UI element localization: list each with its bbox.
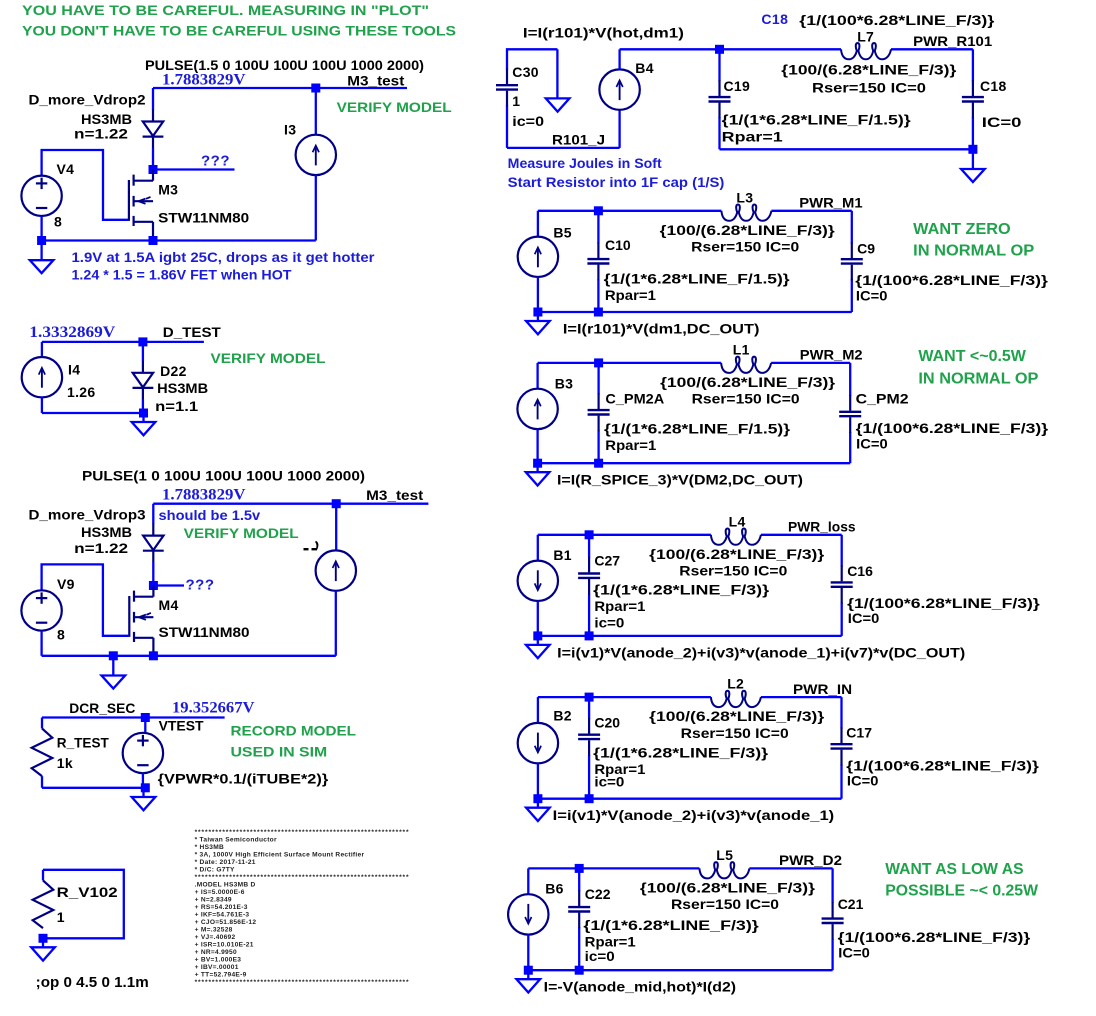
- junction M4 source: [149, 651, 158, 660]
- svg-text:* 3A, 1000V High Efficient Sur: * 3A, 1000V High Efficient Surface Mount…: [195, 852, 365, 859]
- svg-text:1.7883829V: 1.7883829V: [162, 486, 246, 503]
- svg-text:{1/(100*6.28*LINE_F/3)}: {1/(100*6.28*LINE_F/3)}: [846, 757, 1039, 773]
- ground D: [132, 788, 156, 810]
- svg-text:Rser=150 IC=0: Rser=150 IC=0: [692, 391, 800, 407]
- wire C21 branch lower: [831, 939, 833, 970]
- wire D22 anode: [142, 342, 144, 361]
- svg-text:{1/(1*6.28*LINE_F/1.5)}: {1/(1*6.28*LINE_F/1.5)}: [722, 112, 912, 128]
- wire C27 branch upper: [588, 535, 590, 558]
- svg-text:should be 1.5v: should be 1.5v: [159, 507, 261, 523]
- wire top rail J right: [761, 696, 842, 698]
- svg-text:IC=0: IC=0: [856, 435, 888, 451]
- svg-text:{100/(6.28*LINE_F/3)}: {100/(6.28*LINE_F/3)}: [649, 546, 825, 562]
- svg-text:{100/(6.28*LINE_F/3)}: {100/(6.28*LINE_F/3)}: [640, 879, 816, 895]
- svg-text:I=I(R_SPICE_3)*V(DM2,DC_OUT): I=I(R_SPICE_3)*V(DM2,DC_OUT): [557, 472, 803, 488]
- svg-text:n=1.22: n=1.22: [74, 125, 128, 141]
- wire V9 minus to rail: [40, 631, 42, 656]
- svg-text:{1/(100*6.28*LINE_F/3)}: {1/(100*6.28*LINE_F/3)}: [855, 272, 1048, 288]
- wire top rail G left: [538, 210, 722, 212]
- svg-text:V4: V4: [57, 161, 75, 177]
- svg-text:+ CJO=51.856E-12: + CJO=51.856E-12: [195, 919, 257, 926]
- svg-text:PWR_R101: PWR_R101: [913, 33, 992, 49]
- svg-text:L7: L7: [857, 29, 874, 45]
- svg-text:B2: B2: [553, 708, 572, 724]
- svg-text:L5: L5: [716, 847, 733, 863]
- svg-text:******************************: ****************************************…: [195, 829, 410, 836]
- svg-text:ic=0: ic=0: [594, 614, 624, 630]
- svg-text:C9: C9: [857, 241, 875, 257]
- capacitor C16: [831, 566, 853, 604]
- wire top rail J left: [538, 696, 711, 698]
- current source B4: [599, 69, 639, 109]
- svg-text:HS3MB: HS3MB: [81, 524, 132, 540]
- junction B3 bottom: [533, 459, 542, 468]
- capacitor C19: [709, 80, 731, 118]
- svg-text:L3: L3: [736, 189, 753, 205]
- svg-text:1.7883829V: 1.7883829V: [162, 71, 246, 88]
- svg-text:{1/(100*6.28*LINE_F/3)}: {1/(100*6.28*LINE_F/3)}: [799, 12, 995, 28]
- junction C27 bottom: [585, 631, 594, 640]
- svg-text:WANT ZERO: WANT ZERO: [913, 221, 1011, 238]
- junction C19 top: [715, 45, 724, 54]
- wire C18 branch lower: [972, 117, 974, 149]
- svg-text:******************************: ****************************************…: [195, 874, 410, 881]
- ground J: [526, 799, 550, 821]
- svg-text:{100/(6.28*LINE_F/3)}: {100/(6.28*LINE_F/3)}: [660, 374, 836, 390]
- diode D_more_Vdrop3: [143, 524, 164, 563]
- ground B: [132, 413, 156, 435]
- wire R_V102 loop: [43, 870, 124, 939]
- svg-text:STW11NM80: STW11NM80: [158, 210, 249, 226]
- junction top rail I3: [311, 84, 320, 93]
- svg-text:IC=0: IC=0: [848, 610, 880, 626]
- wire C16 branch lower: [841, 603, 843, 636]
- svg-text:ic=0: ic=0: [512, 113, 544, 129]
- junction C22 top: [575, 864, 584, 873]
- wire C30 loop lower: [506, 105, 508, 148]
- capacitor C22: [568, 890, 590, 928]
- svg-text:{1/(100*6.28*LINE_F/3)}: {1/(100*6.28*LINE_F/3)}: [856, 420, 1049, 436]
- wire R101_J bottom: [507, 147, 620, 149]
- svg-text:PWR_M1: PWR_M1: [799, 195, 863, 211]
- svg-text:{VPWR*0.1/(iTUBE*2)}: {VPWR*0.1/(iTUBE*2)}: [158, 771, 329, 787]
- svg-text:V9: V9: [57, 576, 75, 592]
- junction B1 bottom: [533, 631, 542, 640]
- wire C10 branch upper: [597, 211, 599, 244]
- wire C20 branch lower: [588, 755, 590, 799]
- svg-text:WANT AS LOW AS: WANT AS LOW AS: [885, 861, 1024, 878]
- svg-text:n=1.1: n=1.1: [155, 398, 198, 414]
- junction B2 bottom: [533, 794, 542, 803]
- svg-text:n=1.22: n=1.22: [74, 540, 128, 556]
- svg-text:B3: B3: [555, 375, 574, 391]
- junction drain node (C): [149, 581, 158, 590]
- svg-text:******************************: ****************************************…: [195, 979, 410, 986]
- ground A: [30, 241, 54, 274]
- wire query stub (C): [157, 584, 184, 586]
- wire top rail M3_test (C): [153, 503, 428, 505]
- svg-text:RECORD MODEL: RECORD MODEL: [231, 722, 357, 738]
- ground F stub: [546, 98, 570, 111]
- capacitor C18: [962, 80, 984, 118]
- wire B6 bottom lead: [527, 934, 529, 970]
- svg-text:+ VJ=.40692: + VJ=.40692: [195, 934, 236, 941]
- wire bottom rail K: [528, 969, 832, 971]
- svg-text:+ N=2.8349: + N=2.8349: [195, 897, 232, 904]
- wire B5 bottom lead: [537, 277, 539, 312]
- svg-text:+ IS=5.0000E-6: + IS=5.0000E-6: [195, 889, 245, 896]
- svg-text:I4: I4: [68, 362, 80, 378]
- inductor L2: [711, 691, 761, 707]
- svg-text:Rser=150 IC=0: Rser=150 IC=0: [681, 725, 789, 741]
- wire I4 top: [41, 342, 43, 358]
- svg-text:1.26: 1.26: [67, 384, 95, 400]
- transistor M3: [129, 170, 153, 238]
- capacitor C30: [496, 68, 518, 106]
- svg-text:HS3MB: HS3MB: [157, 380, 208, 396]
- svg-text:8: 8: [57, 627, 65, 643]
- resistor R_V102: [33, 880, 54, 928]
- svg-text:I3: I3: [284, 121, 296, 137]
- junction B6 bottom: [524, 966, 533, 975]
- wire V4 to gate: [42, 150, 128, 220]
- voltage source VTEST: [123, 733, 163, 773]
- svg-text:C21: C21: [838, 896, 864, 912]
- svg-text:R_TEST: R_TEST: [57, 735, 109, 751]
- wire diode cathode to node: [152, 148, 154, 170]
- junction C20 bottom: [585, 794, 594, 803]
- wire R_TEST top lead: [41, 718, 43, 729]
- wire C9 branch upper: [851, 211, 853, 244]
- wire B3 top lead: [536, 363, 538, 389]
- svg-text:Rpar=1: Rpar=1: [594, 598, 645, 614]
- svg-text:{1/(1*6.28*LINE_F/3)}: {1/(1*6.28*LINE_F/3)}: [583, 917, 759, 933]
- transistor M4: [129, 586, 153, 654]
- wire C_PM2A branch lower: [597, 430, 599, 463]
- svg-text:* D/C: G7TY: * D/C: G7TY: [195, 867, 235, 874]
- svg-text:.MODEL HS3MB D: .MODEL HS3MB D: [195, 882, 256, 889]
- svg-text:R_V102: R_V102: [57, 884, 118, 900]
- junction V4 bottom: [37, 236, 46, 245]
- svg-text:Rser=150 IC=0: Rser=150 IC=0: [812, 80, 926, 96]
- junction C_PM2A top: [594, 358, 603, 367]
- svg-text:D22: D22: [160, 363, 187, 379]
- wire top rail H left: [538, 362, 722, 364]
- junction C27 top: [585, 530, 594, 539]
- svg-text:* Date: 2017-11-21: * Date: 2017-11-21: [195, 859, 256, 866]
- svg-text:IC=0: IC=0: [982, 114, 1022, 130]
- inductor L3: [721, 205, 771, 221]
- svg-text:1k: 1k: [57, 755, 73, 771]
- wire diode anode (C): [152, 504, 154, 524]
- wire I3 top: [315, 88, 317, 135]
- svg-text:{100/(6.28*LINE_F/3)}: {100/(6.28*LINE_F/3)}: [649, 708, 825, 724]
- voltage source V9: [21, 590, 61, 630]
- svg-text:+ M=.32528: + M=.32528: [195, 927, 233, 934]
- svg-text:{1/(1*6.28*LINE_F/1.5)}: {1/(1*6.28*LINE_F/1.5)}: [604, 271, 791, 287]
- svg-text:I=I(r101)*V(hot,dm1): I=I(r101)*V(hot,dm1): [523, 25, 684, 41]
- svg-text:I=i(v1)*V(anode_2)+i(v3)*v(ano: I=i(v1)*V(anode_2)+i(v3)*v(anode_1)+i(v7…: [557, 644, 965, 660]
- svg-text:I=i(v1)*V(anode_2)+i(v3)*v(ano: I=i(v1)*V(anode_2)+i(v3)*v(anode_1): [553, 807, 835, 823]
- svg-text:{1/(1*6.28*LINE_F/1.5)}: {1/(1*6.28*LINE_F/1.5)}: [604, 421, 791, 437]
- svg-text:19.352667V: 19.352667V: [172, 700, 255, 717]
- wire gate query stub: [157, 168, 235, 170]
- svg-text:L4: L4: [729, 513, 746, 529]
- capacitor C20: [578, 718, 600, 756]
- wire Ix bottom (C): [335, 591, 337, 656]
- svg-text:USED IN SIM: USED IN SIM: [231, 743, 328, 759]
- svg-text:C22: C22: [585, 886, 611, 902]
- svg-text:D_more_Vdrop3: D_more_Vdrop3: [29, 507, 146, 523]
- inductor L1: [721, 357, 771, 373]
- wire C22 branch upper: [578, 868, 580, 891]
- svg-text:C10: C10: [605, 237, 631, 253]
- capacitor C27: [578, 557, 600, 595]
- wire top rail K right: [749, 867, 832, 869]
- svg-text:C30: C30: [512, 64, 539, 80]
- svg-text:DCR_SEC: DCR_SEC: [69, 700, 135, 716]
- junction C10 top: [594, 206, 603, 215]
- capacitor C21: [822, 902, 844, 940]
- wire gnd stub F: [556, 49, 558, 98]
- svg-text:IC=0: IC=0: [847, 773, 879, 789]
- svg-text:{1/(100*6.28*LINE_F/3)}: {1/(100*6.28*LINE_F/3)}: [847, 595, 1040, 611]
- svg-text:IN NORMAL OP: IN NORMAL OP: [918, 370, 1038, 387]
- capacitor C17: [831, 727, 853, 765]
- wire B6 top lead: [527, 868, 529, 894]
- svg-text:1.9V at 1.5A igbt 25C, drops a: 1.9V at 1.5A igbt 25C, drops as it get h…: [72, 249, 376, 265]
- svg-text:C18: C18: [980, 78, 1007, 94]
- wire bottom rail A: [42, 239, 316, 241]
- ground K: [517, 970, 541, 992]
- junction drain node A: [149, 165, 158, 174]
- svg-text:Rser=150 IC=0: Rser=150 IC=0: [679, 563, 787, 579]
- svg-text:ic=0: ic=0: [585, 948, 615, 964]
- wire bottom rail B: [42, 412, 144, 414]
- resistor R_TEST: [32, 728, 53, 776]
- svg-text:+ NR=4.9950: + NR=4.9950: [195, 949, 237, 956]
- wire C17 branch lower: [840, 764, 842, 798]
- svg-text:M3: M3: [158, 181, 178, 197]
- wire I3 bottom: [315, 175, 317, 241]
- svg-text:+ RS=54.201E-3: + RS=54.201E-3: [195, 904, 248, 911]
- svg-text:Rpar=1: Rpar=1: [722, 129, 783, 145]
- wire top rail I right: [761, 534, 842, 536]
- wire top rail D_TEST: [42, 341, 204, 343]
- capacitor C_PM2A: [588, 393, 610, 431]
- svg-text:I=I(r101)*V(dm1,DC_OUT): I=I(r101)*V(dm1,DC_OUT): [563, 320, 760, 336]
- bsource B5: [518, 237, 558, 277]
- wire C18 branch upper: [972, 49, 974, 81]
- svg-text:8: 8: [54, 213, 62, 229]
- svg-text:PWR_loss: PWR_loss: [788, 519, 856, 535]
- junction C22 bottom: [575, 966, 584, 975]
- wire top rail F right: [891, 48, 973, 50]
- svg-text:L2: L2: [727, 676, 744, 692]
- svg-text:C20: C20: [594, 715, 620, 731]
- ground F: [961, 149, 985, 182]
- capacitor C_PM2: [839, 395, 861, 433]
- svg-text:I=-V(anode_mid,hot)*I(d2): I=-V(anode_mid,hot)*I(d2): [544, 979, 736, 995]
- svg-text:1: 1: [512, 93, 520, 109]
- diode D_more_Vdrop2: [143, 110, 164, 149]
- wire C16 branch upper: [841, 535, 843, 567]
- capacitor C10: [587, 242, 609, 280]
- junction C18 bottom: [968, 145, 977, 154]
- ground C: [102, 656, 126, 689]
- svg-text:ic=0: ic=0: [594, 773, 624, 789]
- svg-text:B4: B4: [635, 60, 654, 76]
- svg-text:PWR_M2: PWR_M2: [800, 347, 863, 363]
- junction M3 source: [149, 236, 158, 245]
- bsource B1: [518, 561, 558, 601]
- wire C_PM2 branch upper: [849, 363, 851, 396]
- svg-text:{1/(100*6.28*LINE_F/3)}: {1/(100*6.28*LINE_F/3)}: [838, 929, 1031, 945]
- wire top rail I left: [538, 534, 711, 536]
- current source I4: [22, 357, 62, 397]
- wire B2 bottom lead: [537, 763, 539, 799]
- svg-text:C_PM2: C_PM2: [856, 391, 909, 407]
- wire C_PM2 branch lower: [849, 432, 851, 463]
- junction C_PM2A bottom: [594, 459, 603, 468]
- svg-text:* Taiwan Semiconductor: * Taiwan Semiconductor: [195, 837, 277, 844]
- bsource B3: [517, 389, 557, 429]
- svg-text:B5: B5: [553, 225, 572, 241]
- wire bottom rail H: [538, 462, 851, 464]
- svg-text:+ IBV=.00001: + IBV=.00001: [195, 964, 239, 971]
- wire C19 branch lower: [718, 117, 720, 149]
- bsource B6: [508, 894, 548, 934]
- wire bottom rail J: [538, 798, 842, 800]
- svg-text:B6: B6: [545, 880, 564, 896]
- wire C20 branch upper: [588, 697, 590, 719]
- svg-text:PULSE(1 0 100U 100U 100U 1000: PULSE(1 0 100U 100U 100U 1000 2000): [82, 468, 365, 484]
- wire Ix top (C): [335, 504, 337, 551]
- svg-text:M3_test: M3_test: [366, 487, 423, 503]
- junction D22 cathode node: [139, 409, 148, 418]
- svg-text:YOU HAVE TO BE CAREFUL. MEASUR: YOU HAVE TO BE CAREFUL. MEASURING IN "PL…: [22, 2, 429, 18]
- wire VTEST bottom lead: [142, 773, 144, 788]
- wire top rail F left: [620, 48, 841, 50]
- inductor L4: [711, 529, 761, 545]
- svg-text:???: ???: [186, 577, 215, 594]
- svg-text:1.3332869V: 1.3332869V: [29, 324, 115, 341]
- junction top rail Ix (C): [332, 499, 341, 508]
- svg-text:D_TEST: D_TEST: [163, 324, 221, 340]
- wire VTEST top lead: [144, 718, 146, 734]
- current source (C): [316, 550, 356, 590]
- wire C22 branch lower: [578, 927, 580, 970]
- svg-text:+ TT=52.794E-9: + TT=52.794E-9: [195, 972, 247, 979]
- wire B4 bottom lead: [618, 110, 620, 148]
- inductor L5: [699, 862, 749, 878]
- wire diode cathode (C): [152, 562, 154, 586]
- wire R_TEST bottom lead: [41, 776, 43, 788]
- svg-text:{1/(1*6.28*LINE_F/3)}: {1/(1*6.28*LINE_F/3)}: [593, 745, 769, 761]
- wire top rail K left: [528, 867, 699, 869]
- svg-text:C16: C16: [847, 563, 873, 579]
- junction B5 bottom: [533, 308, 542, 317]
- ground G: [526, 312, 550, 334]
- svg-text:IC=0: IC=0: [856, 288, 888, 304]
- current source I3: [296, 135, 336, 175]
- svg-text:* HS3MB: * HS3MB: [195, 844, 224, 851]
- svg-text:C27: C27: [594, 553, 620, 569]
- junction DCR_SEC node: [141, 713, 150, 722]
- wire B4 top lead: [618, 49, 620, 69]
- svg-text:C17: C17: [846, 724, 872, 740]
- svg-text:POSSIBLE ~< 0.25W: POSSIBLE ~< 0.25W: [885, 883, 1039, 900]
- svg-text:Rpar=1: Rpar=1: [605, 287, 656, 303]
- svg-text:C19: C19: [724, 78, 751, 94]
- svg-text:{100/(6.28*LINE_F/3)}: {100/(6.28*LINE_F/3)}: [781, 62, 957, 78]
- capacitor C9: [841, 242, 863, 280]
- junction VTEST bottom: [141, 783, 150, 792]
- svg-text:Rpar=1: Rpar=1: [585, 934, 636, 950]
- wire bottom rail C: [42, 655, 336, 657]
- wire C21 branch upper: [831, 868, 833, 902]
- wire C_PM2A branch upper: [597, 363, 599, 394]
- svg-text:C_PM2A: C_PM2A: [605, 390, 664, 406]
- svg-text:VTEST: VTEST: [159, 718, 204, 734]
- svg-text:IC=0: IC=0: [838, 944, 870, 960]
- wire C27 branch lower: [588, 594, 590, 636]
- junction D_TEST node: [138, 337, 147, 346]
- svg-text:D_more_Vdrop2: D_more_Vdrop2: [29, 91, 146, 107]
- wire C9 branch lower: [851, 279, 853, 312]
- ground H: [526, 463, 550, 485]
- svg-text:PWR_D2: PWR_D2: [779, 852, 842, 868]
- wire bottom rail D: [42, 787, 145, 789]
- ground I: [526, 636, 550, 658]
- wire B3 bottom lead: [536, 429, 538, 463]
- svg-text:YOU DON'T HAVE TO BE CAREFUL: YOU DON'T HAVE TO BE CAREFUL USING THESE…: [22, 22, 456, 38]
- bsource B2: [518, 723, 558, 763]
- wire top rail H right: [771, 362, 850, 364]
- wire bottom rail G: [538, 311, 852, 313]
- wire bottom rail I: [538, 635, 842, 637]
- svg-text:WANT <~0.5W: WANT <~0.5W: [918, 348, 1026, 365]
- junction C10 bottom: [594, 308, 603, 317]
- svg-text:M3_test: M3_test: [347, 72, 404, 88]
- wire C17 branch upper: [840, 697, 842, 728]
- svg-text:B1: B1: [553, 547, 572, 563]
- svg-text:VERIFY MODEL: VERIFY MODEL: [337, 99, 452, 115]
- wire C10 branch lower: [597, 279, 599, 312]
- svg-text:???: ???: [201, 152, 230, 169]
- wire B1 top lead: [537, 535, 539, 561]
- svg-text:;op 0 4.5 0 1.1m: ;op 0 4.5 0 1.1m: [36, 974, 149, 991]
- wire B5 top lead: [537, 211, 539, 237]
- svg-text:PWR_IN: PWR_IN: [793, 681, 852, 697]
- svg-text:Measure Joules in Soft: Measure Joules in Soft: [508, 155, 662, 171]
- svg-text:VERIFY MODEL: VERIFY MODEL: [184, 525, 299, 541]
- wire V9 to gate: [42, 564, 129, 635]
- junction R_V102 bottom: [39, 934, 48, 943]
- svg-text:1: 1: [57, 909, 65, 925]
- diode D22: [133, 361, 154, 400]
- svg-text:M4: M4: [159, 597, 179, 613]
- wire top rail DCR_SEC: [42, 716, 225, 718]
- svg-text:+ BV=1.000E3: + BV=1.000E3: [195, 957, 242, 964]
- svg-text:Rpar=1: Rpar=1: [605, 437, 656, 453]
- wire B2 top lead: [537, 697, 539, 723]
- svg-text:STW11NM80: STW11NM80: [159, 624, 250, 640]
- svg-text:IN NORMAL OP: IN NORMAL OP: [913, 242, 1034, 259]
- svg-text:R101_J: R101_J: [552, 132, 605, 148]
- artifact scribble: [304, 541, 319, 550]
- spice model text block HS3MB: [195, 829, 410, 986]
